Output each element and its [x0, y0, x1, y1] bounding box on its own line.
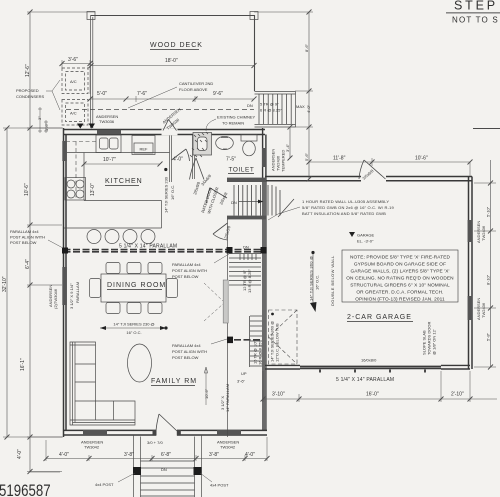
post parallam left — [227, 247, 233, 254]
post parallam mid — [227, 337, 233, 344]
bottom dim texts — [59, 452, 255, 458]
svg-text:WOOD DECK: WOOD DECK — [150, 42, 203, 49]
svg-text:TW3036: TW3036 — [99, 119, 115, 124]
svg-text:16" O.C.: 16" O.C. — [170, 185, 175, 200]
door toilet room 3/0x6/8 — [190, 158, 205, 180]
svg-text:TOILET: TOILET — [229, 167, 255, 174]
svg-text:3'-8": 3'-8" — [124, 452, 134, 458]
svg-text:FAMILY RM: FAMILY RM — [151, 378, 197, 385]
svg-text:DOUBLE BELOW WALL: DOUBLE BELOW WALL — [330, 255, 335, 306]
label rated door with closer — [200, 186, 219, 214]
svg-text:7'-6": 7'-6" — [137, 91, 147, 97]
leader proposed condensers — [46, 80, 60, 110]
label tji 360 below tub — [270, 313, 280, 362]
label andersen tw3036 — [96, 114, 118, 124]
dim line right deck vertical 8-6 — [254, 10, 313, 182]
range stove — [65, 178, 86, 201]
tub area dashed below — [269, 310, 298, 364]
svg-text:(2)TW3046: (2)TW3046 — [53, 288, 58, 309]
door vestibule 2/6x6/8 — [172, 149, 190, 161]
toilet sink oval — [216, 136, 234, 149]
label proposed condensers — [16, 88, 45, 99]
stairs mini basement treads — [240, 254, 256, 260]
svg-text:DN: DN — [231, 200, 237, 205]
svg-text:TEMPERED: TEMPERED — [281, 150, 286, 172]
post parallam right — [261, 247, 267, 254]
leader dashed post lower — [204, 304, 223, 321]
wall garage bottom — [265, 365, 470, 372]
svg-text:REF: REF — [140, 147, 149, 152]
svg-text:6'-4": 6'-4" — [25, 259, 31, 269]
svg-text:PARALLAM: PARALLAM — [75, 282, 80, 303]
toilet wc — [241, 135, 257, 156]
label parallam post left — [10, 229, 45, 245]
svg-text:DINING ROOM: DINING ROOM — [107, 282, 166, 289]
condenser pads dashed — [62, 68, 88, 125]
leader parallam upper — [214, 254, 229, 263]
svg-text:ON CEILING. NO RATING REQ'D ON: ON CEILING. NO RATING REQ'D ON WOODEN — [346, 276, 454, 282]
dim tiny texts — [37, 116, 49, 131]
svg-text:9'-6": 9'-6" — [213, 91, 223, 97]
svg-text:5 1/4" X 14" PARALLAM: 5 1/4" X 14" PARALLAM — [336, 377, 394, 383]
svg-text:POST BELOW: POST BELOW — [172, 274, 199, 279]
svg-text:5'-6": 5'-6" — [304, 152, 309, 161]
svg-text:5/8" RATED GWB ON 2x6 @ 16" O.: 5/8" RATED GWB ON 2x6 @ 16" O.C. W/ R-19 — [302, 205, 395, 210]
label andersen diagonal — [161, 107, 181, 131]
label wood deck — [150, 42, 203, 50]
svg-text:1'-6": 1'-6" — [44, 122, 49, 131]
svg-text:POST BELOW: POST BELOW — [10, 240, 37, 245]
svg-text:5'-0": 5'-0" — [97, 91, 107, 97]
wall toilet bottom — [227, 178, 266, 182]
svg-text:3'-6": 3'-6" — [237, 379, 246, 384]
svg-text:POST ALIGN WITH: POST ALIGN WITH — [10, 235, 45, 240]
kitchen island — [64, 201, 162, 244]
svg-text:FLOOR ABOVE: FLOOR ABOVE — [179, 87, 208, 92]
svg-text:3'-8": 3'-8" — [209, 452, 219, 458]
kitchen counter front edge — [66, 153, 170, 201]
wall top kitchen/toilet — [64, 130, 266, 135]
kitchen sink — [96, 135, 121, 153]
svg-text:13'-0": 13'-0" — [90, 183, 96, 196]
svg-text:12"O.C. BELOW TUB: 12"O.C. BELOW TUB — [275, 323, 280, 362]
label 2-car garage — [347, 314, 413, 322]
svg-text:10'-6": 10'-6" — [204, 388, 209, 399]
cantilever dashed line — [66, 109, 254, 111]
dim line deck 18-0 — [89, 63, 257, 68]
stairs main upper treads — [234, 185, 294, 217]
wall family bottom — [64, 430, 268, 435]
wall toilet left — [193, 135, 195, 180]
label toilet — [228, 167, 254, 174]
porch post right 4x4 — [194, 467, 202, 475]
svg-text:NOT TO S: NOT TO S — [452, 16, 499, 25]
svg-text:POST ALIGN WITH: POST ALIGN WITH — [172, 349, 207, 354]
svg-text:5'-10": 5'-10" — [486, 206, 491, 217]
svg-text:CANTILEVER 2ND: CANTILEVER 2ND — [179, 81, 213, 86]
svg-text:4x4 POST: 4x4 POST — [210, 483, 229, 488]
svg-text:DN: DN — [247, 103, 253, 108]
label andersen tw3042 right — [217, 440, 239, 450]
dim line 3-4 inner — [288, 125, 293, 161]
sofa sectional — [70, 342, 135, 425]
svg-text:4'-0": 4'-0" — [245, 452, 255, 458]
label andersen 2tw3046 — [48, 285, 58, 309]
svg-text:5 TR @ 9": 5 TR @ 9" — [260, 102, 279, 107]
deck ledger triangles — [77, 124, 95, 129]
wall garage top — [265, 177, 472, 181]
svg-text:10'-7": 10'-7" — [103, 157, 116, 163]
label dining room — [107, 282, 166, 290]
wall stairs bottom — [227, 216, 266, 220]
svg-text:PARALLAM 4x4: PARALLAM 4x4 — [172, 262, 201, 267]
label tji 230 span — [113, 322, 154, 336]
svg-text:EL. -3'-0": EL. -3'-0" — [357, 239, 374, 244]
svg-text:7'-5": 7'-5" — [226, 157, 236, 163]
svg-text:10'-6": 10'-6" — [24, 183, 30, 196]
note box border — [342, 250, 458, 302]
svg-text:3/0 + 7/0: 3/0 + 7/0 — [147, 440, 163, 445]
stairs flight2 treads — [229, 254, 261, 286]
svg-text:MAX: MAX — [296, 104, 305, 109]
svg-text:14" TJI SERIES 230: 14" TJI SERIES 230 — [164, 176, 169, 213]
svg-text:4'-0": 4'-0" — [59, 452, 69, 458]
window dining (2)TW3046 — [62, 267, 67, 305]
porch sides — [134, 435, 202, 497]
svg-text:13 R @ 8.25": 13 R @ 8.25" — [247, 268, 252, 293]
svg-text:CONDENSERS: CONDENSERS — [16, 94, 45, 99]
label tji 360 garage — [309, 256, 320, 301]
door garage service 3/0x6/8 — [359, 160, 386, 179]
svg-text:32'-10": 32'-10" — [2, 276, 8, 292]
svg-text:3": 3" — [37, 116, 42, 120]
svg-text:TW3042: TW3042 — [84, 444, 100, 449]
dim line garage right 5-10 8-10 5-8 — [474, 160, 496, 370]
leader parallam lower — [211, 339, 227, 344]
svg-text:8'-10": 8'-10" — [486, 274, 491, 285]
window garage right 2 — [468, 296, 473, 320]
door opening garage top — [361, 175, 386, 182]
label slope slab — [422, 322, 437, 355]
svg-text:3 1/2" X 9 1/4": 3 1/2" X 9 1/4" — [69, 283, 74, 309]
label deck stair treads — [260, 102, 282, 113]
note 1 hour rated wall — [302, 199, 395, 216]
door kitchen to deck — [162, 120, 178, 136]
window kitchen sink TW3036 — [97, 130, 121, 134]
svg-text:4x4 POST: 4x4 POST — [95, 482, 114, 487]
leader 4x4 post right — [200, 473, 212, 482]
label parallam 14 stair — [220, 384, 230, 412]
wall dining right / stair side — [227, 219, 229, 437]
svg-text:6 R @ 8.25": 6 R @ 8.25" — [260, 108, 282, 113]
svg-text:3'-4": 3'-4" — [285, 143, 290, 152]
svg-text:16'-0": 16'-0" — [366, 392, 379, 398]
stairs flight3 treads — [250, 316, 263, 367]
dim line family bottom — [44, 437, 270, 461]
porch post left 4x4 — [133, 467, 141, 475]
svg-text:12'-6": 12'-6" — [25, 64, 31, 77]
window family bottom left TW3042 — [83, 430, 107, 435]
label andersen tw2436 tempered — [271, 149, 286, 172]
stair railing bar — [223, 280, 228, 323]
svg-text:GYPSUM BOARD ON GARAGE SIDE OF: GYPSUM BOARD ON GARAGE SIDE OF — [354, 262, 446, 268]
svg-text:EXISTING CHIMNEY: EXISTING CHIMNEY — [217, 115, 256, 120]
garage el marker — [349, 232, 355, 237]
window family bottom right TW3042 — [217, 430, 241, 435]
label tji 230 vertical — [164, 168, 176, 213]
deck stairs — [255, 92, 296, 128]
svg-text:16" O.C.: 16" O.C. — [126, 330, 141, 335]
svg-text:8'-6": 8'-6" — [304, 43, 309, 52]
svg-text:TW3042: TW3042 — [220, 444, 236, 449]
svg-text:A/C: A/C — [70, 79, 77, 84]
stairs DN arrow — [239, 200, 264, 204]
svg-text:6'-8": 6'-8" — [161, 452, 171, 458]
refrigerator REF — [132, 136, 155, 155]
label stair treads flight2 — [242, 268, 252, 293]
svg-text:16/0x8/0: 16/0x8/0 — [361, 358, 377, 363]
svg-text:14" TJI SERIES 360 @: 14" TJI SERIES 360 @ — [309, 256, 314, 301]
window kitchen west — [62, 141, 67, 161]
wall east toilet — [263, 128, 266, 181]
svg-text:2-CAR GARAGE: 2-CAR GARAGE — [347, 314, 412, 321]
dim tiny top-left — [38, 107, 48, 133]
svg-text:NOTE: PROVIDE 5/8" TYPE 'X' FI: NOTE: PROVIDE 5/8" TYPE 'X' FIRE-RATED — [350, 255, 451, 261]
door opening family bottom — [156, 429, 177, 437]
beam mid dashed — [234, 339, 262, 341]
wall kitchen right — [170, 135, 172, 183]
dim line garage bottom 3-10 16-0 2-10 — [261, 371, 498, 402]
deck outline — [87, 12, 258, 129]
coffee table oval — [128, 344, 152, 382]
leader dashed post upper — [204, 283, 223, 301]
svg-text:STRUCTURAL GIRDERS 6" X 10" NO: STRUCTURAL GIRDERS 6" X 10" NOMINAL — [350, 283, 450, 289]
svg-text:1 HOUR RATED WALL UL-U305 ASSE: 1 HOUR RATED WALL UL-U305 ASSEMBLY — [302, 199, 389, 204]
dim line top 5-0 7-6 9-6 — [88, 96, 257, 102]
svg-text:4'-0": 4'-0" — [306, 104, 311, 113]
chimney hatched box — [190, 132, 212, 157]
svg-text:16 R @ 8.25": 16 R @ 8.25" — [258, 340, 263, 365]
svg-text:10'-6": 10'-6" — [415, 156, 428, 162]
svg-text:11'-8": 11'-8" — [333, 156, 346, 162]
post beam left end — [62, 248, 68, 254]
svg-text:POST ALIGN WITH: POST ALIGN WITH — [172, 268, 207, 273]
svg-text:STEP D: STEP D — [454, 0, 500, 13]
dim line garage top 11-8 10-6 — [307, 158, 473, 176]
window toilet TW2436 — [262, 148, 267, 167]
label parallam 9 1/4 dining — [69, 282, 80, 309]
leader 1 hour wall — [268, 207, 300, 220]
door stairs rated 2/6x6/8 — [207, 188, 228, 203]
svg-text:TW2436: TW2436 — [481, 302, 486, 318]
svg-text:3'-6": 3'-6" — [68, 57, 78, 63]
svg-text:4'-0": 4'-0" — [173, 157, 183, 163]
leader parallam left — [48, 240, 63, 248]
beam 5 1/4 x 14 parallam dashed — [64, 250, 266, 252]
dim line left inner — [27, 10, 95, 475]
svg-text:A/C: A/C — [70, 111, 77, 116]
wall garage right — [469, 177, 473, 370]
door jamb blocks family — [153, 430, 157, 436]
wall left exterior — [64, 128, 67, 437]
leader 4x4 post left — [118, 473, 135, 482]
leader existing chimney — [206, 119, 216, 131]
svg-text:2'-10": 2'-10" — [451, 392, 464, 398]
svg-text:OPINION (FTO-13) REVISED JAN.: OPINION (FTO-13) REVISED JAN. 2011 — [355, 297, 445, 303]
svg-text:14" PARALLAM: 14" PARALLAM — [225, 384, 230, 412]
svg-text:4'-0": 4'-0" — [17, 449, 23, 459]
label stair treads flight3 — [253, 340, 263, 365]
label existing chimney — [217, 115, 256, 126]
svg-text:DN: DN — [243, 245, 249, 250]
label cantilever — [179, 81, 213, 92]
label parallam post lower — [172, 343, 207, 360]
dim 10-6 family arrow — [204, 367, 208, 405]
svg-text:POST BELOW: POST BELOW — [172, 355, 199, 360]
svg-text:OR GREATER. D.C.A. FORMAL TECH: OR GREATER. D.C.A. FORMAL TECH. — [356, 290, 443, 296]
svg-text:TW2436: TW2436 — [481, 225, 486, 241]
label andersen garage window 2 — [476, 298, 486, 320]
svg-text:5196587: 5196587 — [0, 482, 51, 497]
svg-text:3'-10": 3'-10" — [272, 392, 285, 398]
svg-text:GARAGE: GARAGE — [357, 233, 374, 238]
label family rm — [151, 378, 197, 386]
dining table — [90, 263, 178, 314]
svg-text:@ 1/8" ON 12': @ 1/8" ON 12' — [432, 329, 437, 355]
svg-text:UP: UP — [241, 371, 247, 376]
door family 2/6x6/8 — [213, 223, 228, 240]
window garage right 1 — [468, 220, 473, 242]
label garage el — [357, 233, 374, 244]
span arrow tji 360 garage — [310, 251, 317, 312]
svg-text:5'-8": 5'-8" — [486, 332, 491, 341]
dim line condenser 3-0 — [60, 60, 93, 94]
svg-text:16" O.C.: 16" O.C. — [315, 275, 320, 290]
title step — [446, 0, 500, 25]
svg-text:16'-1": 16'-1" — [20, 358, 26, 371]
dim line kitchen 10-7 — [82, 162, 163, 167]
dim text max 4-0 — [296, 104, 311, 113]
svg-text:18'-0": 18'-0" — [165, 58, 178, 64]
line right margin — [473, 128, 500, 130]
dim line left outer 32-10 — [3, 126, 63, 440]
label andersen garage window 1 — [476, 221, 486, 243]
svg-text:GARAGE WALLS, (2) LAYERS 5/8": GARAGE WALLS, (2) LAYERS 5/8" TYPE 'X' — [350, 269, 449, 275]
span arrow tji 230 — [100, 326, 168, 330]
note box text — [346, 255, 454, 303]
svg-text:BATT INSULATION AND 5/8" RATED: BATT INSULATION AND 5/8" RATED GWB — [302, 211, 386, 216]
leader cantilever — [128, 87, 177, 108]
svg-text:DN: DN — [161, 467, 167, 472]
svg-text:PARALLAM 4x4: PARALLAM 4x4 — [10, 229, 39, 234]
svg-text:PARALLAM 4x4: PARALLAM 4x4 — [172, 343, 201, 348]
svg-text:TO REMAIN: TO REMAIN — [222, 121, 244, 126]
svg-text:5 1/4" X 14" PARALLAM: 5 1/4" X 14" PARALLAM — [119, 244, 177, 250]
wall common house-garage — [262, 181, 267, 431]
label parallam post upper — [172, 262, 207, 279]
svg-text:PROPOSED: PROPOSED — [16, 88, 39, 93]
label andersen tw3042 left — [81, 440, 103, 450]
svg-text:KITCHEN: KITCHEN — [105, 178, 143, 185]
label kitchen — [105, 178, 143, 186]
svg-text:14" TJI SERIES 230 @: 14" TJI SERIES 230 @ — [113, 322, 154, 327]
door family bottom leaf — [156, 414, 177, 431]
kitchen upper cabinets dashed — [66, 142, 96, 201]
